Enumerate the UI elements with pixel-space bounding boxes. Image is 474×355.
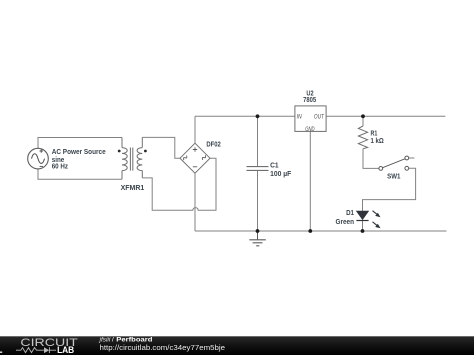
svg-text:7805: 7805 xyxy=(303,95,316,104)
wire AC source to primary top xyxy=(38,138,122,149)
label AC Power Source sine 60 Hz xyxy=(52,147,106,170)
switch SW1 lever xyxy=(383,159,405,168)
footer bar xyxy=(0,336,474,355)
wire bottom rail (ground net) xyxy=(195,230,447,232)
wire bridge bottom vertex to ground rail xyxy=(194,173,196,231)
label C1 100 uF xyxy=(270,161,292,179)
wire LED cathode to ground rail xyxy=(362,221,364,232)
svg-text:jfsiii: jfsiii xyxy=(99,337,111,344)
svg-text:IN: IN xyxy=(297,114,302,121)
label U2 7805 xyxy=(303,89,316,105)
capacitor C1 plates xyxy=(247,167,269,171)
junction node U2 GND/ground rail xyxy=(308,229,312,233)
bridge rectifier DF02 diamond xyxy=(180,143,210,173)
AC source V1 circle xyxy=(28,148,49,169)
svg-text:http://circuitlab.com/c34ey77e: http://circuitlab.com/c34ey77em5bje xyxy=(100,345,226,352)
wire R1 to SW1 common xyxy=(363,149,379,169)
wire R1 branch top xyxy=(362,116,364,126)
wire secondary bottom to bridge right vertex (with hop) xyxy=(142,158,216,210)
junction node R1/rail top xyxy=(361,114,365,118)
LED D1 cathode bar xyxy=(356,220,368,222)
svg-text:Perfboard: Perfboard xyxy=(116,337,152,344)
switch SW1 lower throw terminal xyxy=(405,166,409,170)
svg-text:60 Hz: 60 Hz xyxy=(52,161,69,170)
LED D1 triangle xyxy=(356,211,368,220)
logo resistor zigzag xyxy=(16,348,44,353)
junction node C1/rail top xyxy=(256,114,260,118)
svg-text:OUT: OUT xyxy=(314,114,325,121)
svg-text:SW1: SW1 xyxy=(387,171,400,180)
junction node LED/ground rail xyxy=(361,229,365,233)
label D1 Green xyxy=(336,208,355,226)
LED D1 emission arrows xyxy=(373,211,381,229)
svg-text:1 kΩ: 1 kΩ xyxy=(371,136,384,145)
wire bridge top vertex riser xyxy=(194,116,196,143)
wire top rail (bridge + to U2 IN, OUT to R1, to right end) xyxy=(195,115,445,117)
svg-text:LAB: LAB xyxy=(57,345,75,355)
junction node C1/ground rail xyxy=(256,229,260,233)
label R1 1 kOhm xyxy=(371,129,384,146)
wire C1 branch xyxy=(257,116,259,231)
wire U2 GND riser xyxy=(309,131,311,231)
footer bar left edge mark xyxy=(0,351,2,353)
svg-text:D1: D1 xyxy=(346,208,354,217)
switch SW1 common terminal xyxy=(379,167,383,171)
wire AC source to primary bottom xyxy=(38,169,122,179)
svg-text:GND: GND xyxy=(305,126,315,133)
wire SW1 throw to LED xyxy=(363,168,416,211)
logo diode xyxy=(44,347,56,353)
transformer phasing dot secondary xyxy=(144,150,147,153)
svg-text:Green: Green xyxy=(336,217,355,226)
svg-text:XFMR1: XFMR1 xyxy=(121,183,145,192)
transformer XFMR1 core xyxy=(130,148,132,171)
transformer XFMR1 primary coil xyxy=(122,138,127,180)
switch SW1 upper throw terminal xyxy=(405,156,409,160)
resistor R1 zigzag xyxy=(358,126,367,149)
switch SW1 upper throw stub xyxy=(409,157,415,159)
svg-text:DF02: DF02 xyxy=(206,139,220,148)
transformer phasing dot primary xyxy=(118,150,121,153)
ground symbol xyxy=(249,231,265,246)
svg-text:100 µF: 100 µF xyxy=(270,169,292,178)
wire secondary top to bridge left vertex xyxy=(142,137,180,158)
svg-text:/: / xyxy=(112,337,114,344)
regulator U2 7805 box xyxy=(295,106,326,131)
transformer XFMR1 secondary coil xyxy=(137,137,142,178)
